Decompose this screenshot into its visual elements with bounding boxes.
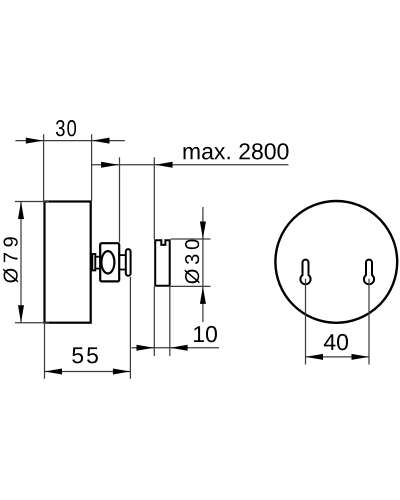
dim dia79 line — [20, 202, 22, 323]
right keyhole — [364, 260, 374, 285]
dim dia30 top ext line — [171, 238, 211, 240]
stud bottom link line — [95, 268, 100, 270]
dim 30 left tick — [43, 134, 45, 201]
dim dia30 bottom ext line — [171, 285, 211, 287]
dim dia30 down arrow — [200, 222, 206, 240]
dim max2800 right tick — [153, 157, 155, 239]
dim dia79 up arrow — [18, 202, 24, 220]
dim 10 line — [132, 347, 220, 349]
knob neck bottom line — [120, 269, 126, 271]
dim 40 line — [306, 356, 370, 358]
dim dia79 down arrow — [18, 305, 24, 323]
dim 40 right arrow — [352, 354, 370, 360]
dim max2800 label — [183, 143, 288, 159]
dim 55 right ext line — [129, 277, 131, 379]
dim 10 label — [194, 326, 217, 342]
dim dia79 label — [3, 237, 18, 282]
wall plate circle front view — [275, 201, 397, 323]
dim 40 left ext line — [305, 279, 307, 365]
dim 40 left arrow — [306, 354, 324, 360]
dim 55 label — [72, 347, 98, 363]
dim 30 left arrow — [26, 138, 44, 144]
dim max2800 right arrow — [155, 162, 173, 168]
dim 10 right ext line — [169, 287, 171, 356]
knob neck top line — [120, 254, 126, 256]
dim 55 line — [45, 371, 131, 373]
dim dia30 line — [202, 207, 204, 322]
clamp ellipse — [101, 251, 114, 273]
dim 30 right tick — [91, 134, 93, 201]
dim 10 right arrow — [170, 345, 188, 351]
dim 40 right ext line — [368, 279, 370, 365]
dim 30 right arrow — [92, 138, 110, 144]
dim max2800 line — [92, 164, 289, 166]
dim 30 label — [56, 120, 76, 136]
dim dia79 bottom ext line — [15, 322, 49, 324]
dim 10 left arrow — [137, 345, 155, 351]
dim dia79 top ext line — [15, 201, 49, 203]
mounting stud tab — [92, 254, 95, 270]
dim max2800 left tick — [119, 157, 121, 242]
dim 55 left arrow — [45, 369, 63, 375]
dim dia30 label — [185, 240, 200, 284]
dim 40 label — [324, 334, 348, 350]
left keyhole — [300, 260, 310, 285]
knob capsule — [126, 249, 131, 276]
dim dia30 up arrow — [200, 286, 206, 304]
ceiling piece outline — [155, 240, 170, 286]
dim 55 left ext line — [44, 324, 46, 379]
clamp body — [100, 243, 119, 281]
dim max2800 left arrow — [101, 162, 119, 168]
dim 10 left ext line — [153, 287, 155, 356]
dim 30 line — [15, 140, 125, 142]
body cylinder side view — [45, 202, 91, 323]
dim 55 right arrow — [113, 369, 130, 375]
stud top link line — [95, 256, 100, 258]
